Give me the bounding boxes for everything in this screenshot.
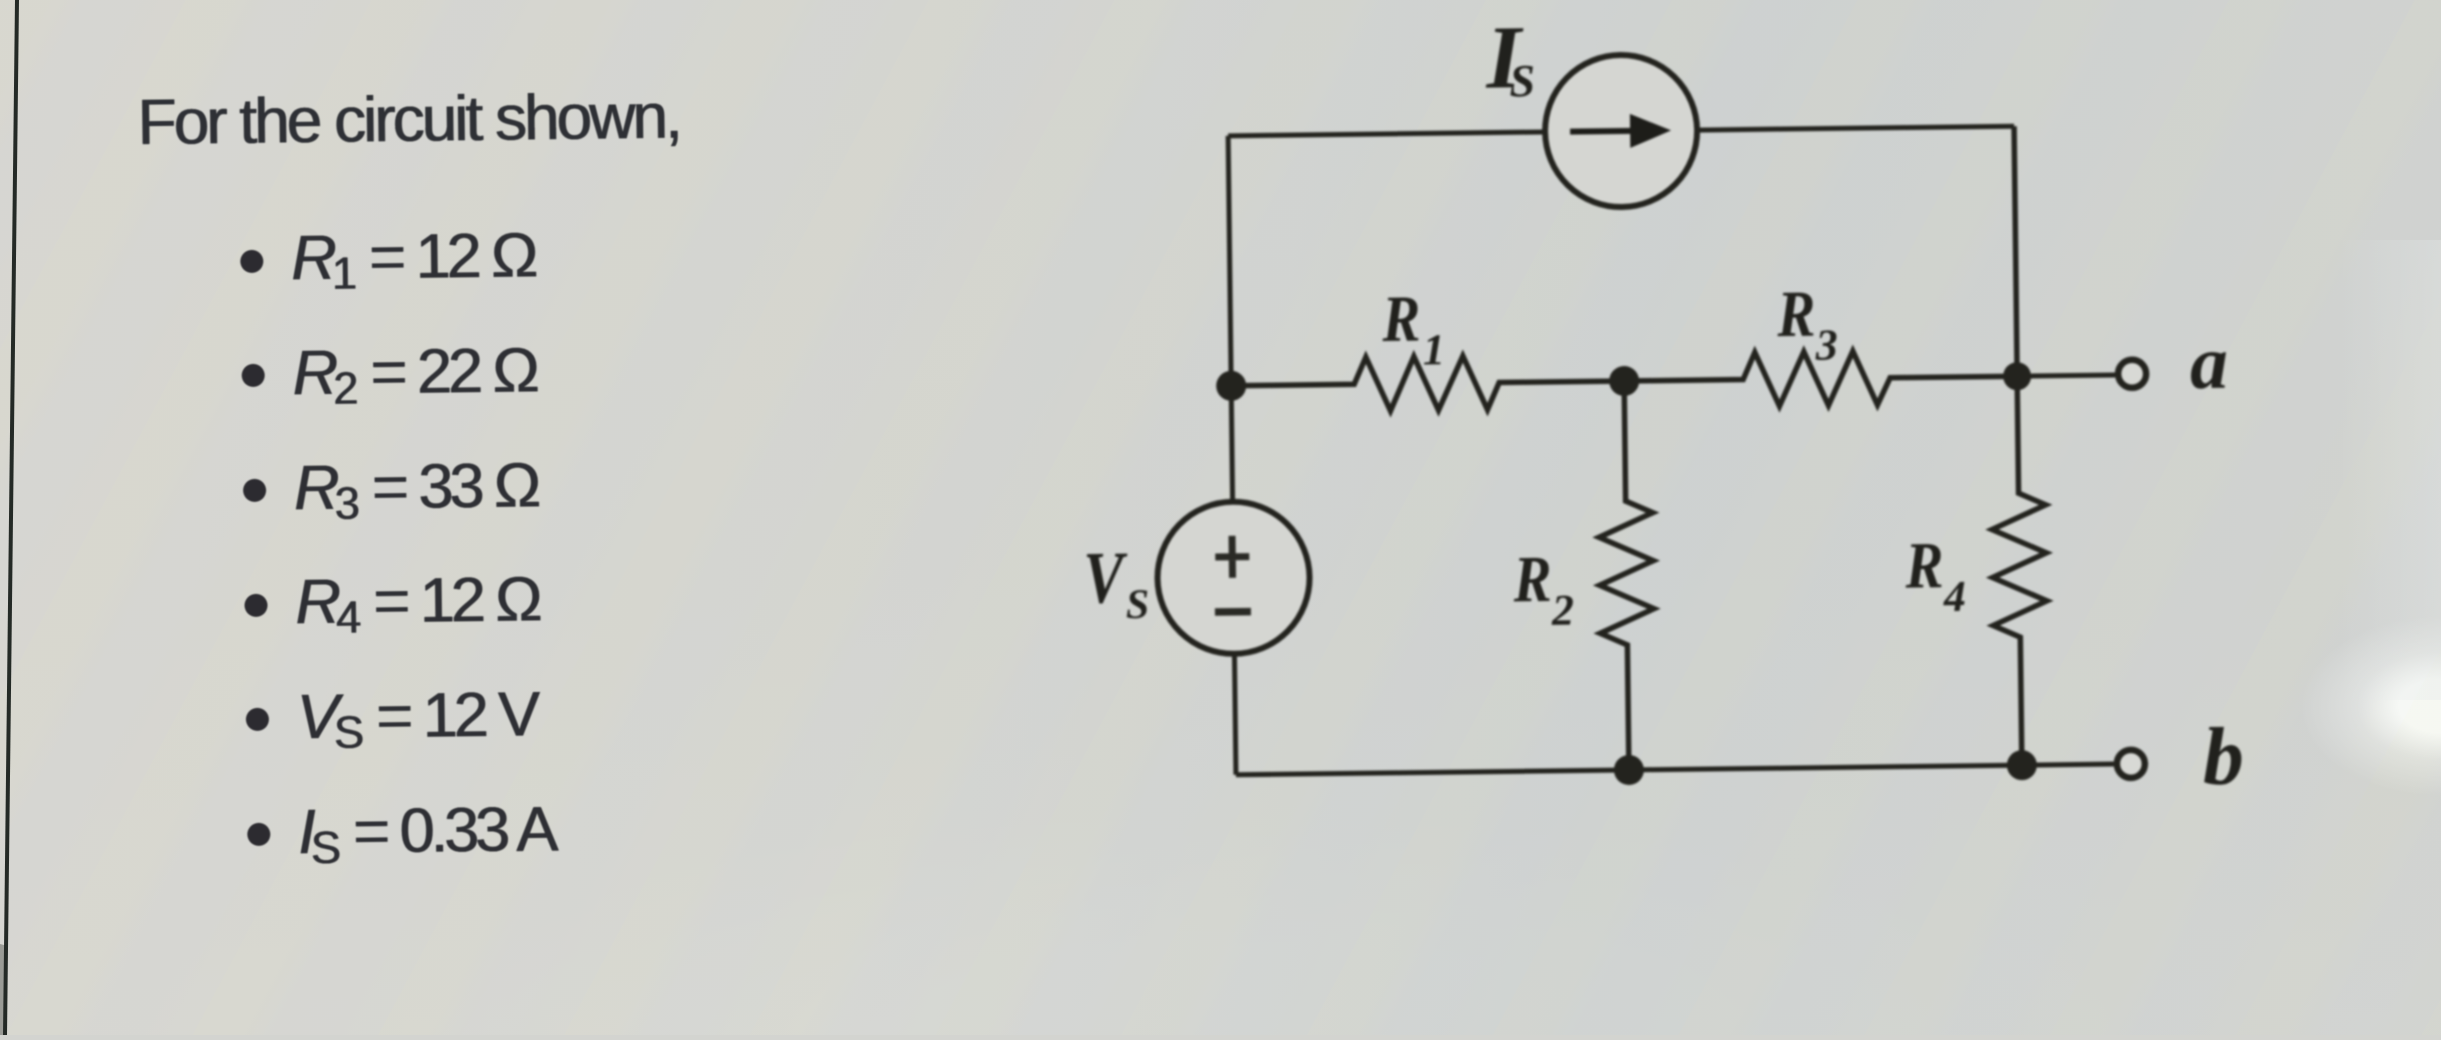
- svg-text:1: 1: [1422, 325, 1445, 374]
- svg-text:a: a: [2189, 321, 2228, 405]
- svg-text:3: 3: [1814, 320, 1838, 369]
- svg-text:b: b: [2202, 710, 2244, 801]
- svg-text:S: S: [1126, 582, 1150, 628]
- svg-text:R: R: [1512, 543, 1552, 616]
- svg-text:R: R: [1381, 282, 1421, 355]
- svg-text:V: V: [1083, 537, 1129, 620]
- svg-text:S: S: [1509, 55, 1535, 106]
- svg-text:4: 4: [1943, 572, 1967, 621]
- svg-text:R: R: [1776, 278, 1816, 351]
- svg-text:2: 2: [1551, 586, 1575, 635]
- svg-text:R: R: [1904, 529, 1944, 602]
